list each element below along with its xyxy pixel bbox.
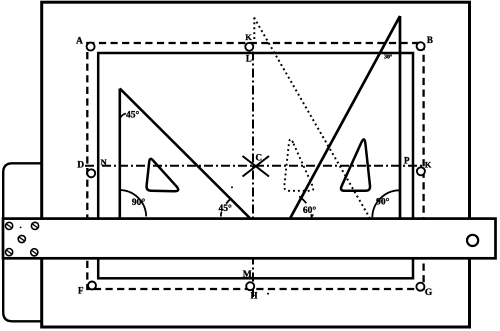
svg-text:G: G bbox=[425, 288, 433, 298]
svg-text:B: B bbox=[427, 35, 433, 45]
svg-text:N: N bbox=[101, 157, 108, 167]
svg-text:45°: 45° bbox=[219, 203, 233, 214]
svg-text:H: H bbox=[250, 291, 257, 301]
svg-text:K: K bbox=[245, 32, 252, 42]
svg-text:45°: 45° bbox=[126, 109, 140, 120]
svg-text:F: F bbox=[78, 286, 84, 296]
svg-text:P: P bbox=[404, 156, 410, 166]
svg-text:60°: 60° bbox=[303, 205, 317, 216]
svg-text:90°: 90° bbox=[132, 197, 146, 208]
svg-text:L: L bbox=[246, 53, 252, 63]
svg-text:K: K bbox=[425, 160, 432, 170]
svg-text:C: C bbox=[255, 153, 262, 163]
svg-text:30°: 30° bbox=[384, 53, 393, 60]
svg-text:A: A bbox=[76, 36, 83, 46]
svg-text:D: D bbox=[77, 161, 84, 171]
svg-text:90°: 90° bbox=[376, 197, 390, 208]
svg-text:M: M bbox=[243, 270, 252, 280]
